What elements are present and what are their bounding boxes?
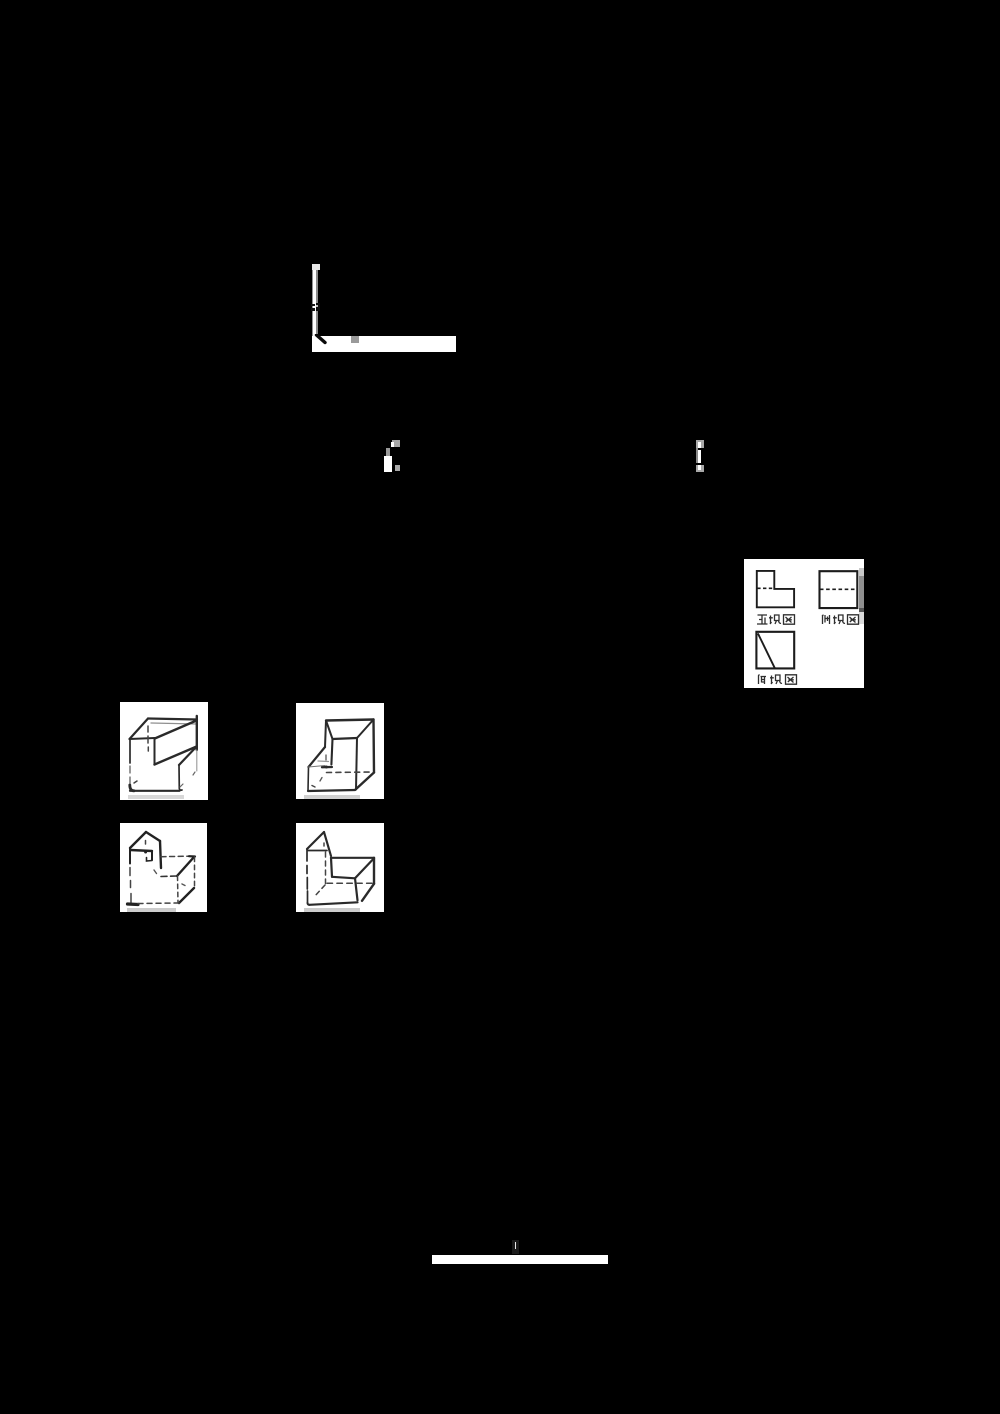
axis fragment: tick marks (dark) on strip [311, 304, 316, 307]
solid A [120, 702, 208, 800]
three-views panel [744, 559, 864, 688]
axis fragment: dark corner mark [312, 334, 332, 346]
top view square [756, 632, 794, 669]
gray strip right edge [859, 568, 865, 576]
text fragment left [384, 440, 400, 472]
label 俯视图 [756, 673, 798, 686]
label 正视图 [756, 613, 796, 626]
bottom page-number mark [512, 1240, 519, 1254]
axis fragment: gray blotch on bar [351, 336, 359, 344]
option C patch [120, 823, 207, 912]
option A patch [120, 702, 208, 800]
option D patch [296, 823, 384, 912]
solid B [296, 703, 384, 799]
front view L-shape [744, 559, 864, 688]
axis fragment: vertical strip [312, 264, 320, 352]
option B patch [296, 703, 384, 799]
solid C [120, 823, 207, 912]
bottom white bar [432, 1255, 608, 1264]
text fragment right [696, 440, 712, 472]
side view rect [820, 571, 858, 608]
solid D [296, 823, 384, 912]
axis fragment: horizontal bar [312, 336, 456, 352]
label 侧视图 [820, 613, 860, 626]
